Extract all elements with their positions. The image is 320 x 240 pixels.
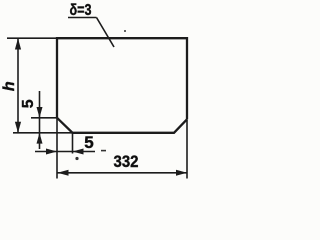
svg-text:5: 5 bbox=[20, 99, 37, 108]
svg-text:5: 5 bbox=[84, 133, 93, 152]
svg-text:332: 332 bbox=[114, 152, 139, 171]
svg-text:h: h bbox=[1, 81, 18, 91]
svg-text:δ=3: δ=3 bbox=[70, 2, 92, 19]
